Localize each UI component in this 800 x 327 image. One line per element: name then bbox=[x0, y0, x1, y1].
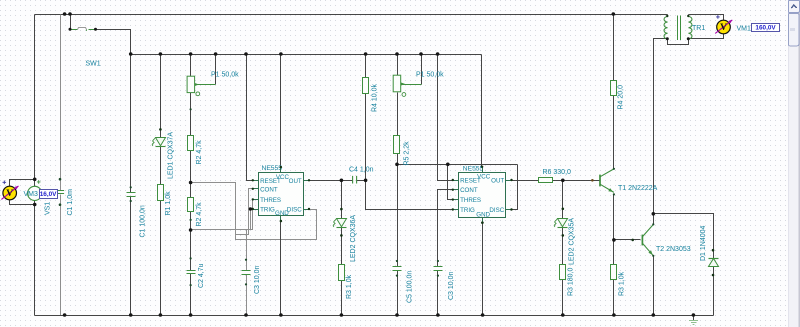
resistor R4b bbox=[611, 81, 617, 96]
svg-text:THRES: THRES bbox=[460, 197, 481, 204]
wire T2 collector node bbox=[653, 214, 655, 225]
op IC NE555 second bbox=[459, 173, 506, 218]
resistor R3a bbox=[560, 265, 566, 280]
junction TRIG1 bbox=[249, 207, 252, 210]
svg-text:R2 4,7k: R2 4,7k bbox=[196, 140, 203, 165]
wire D1 lower bbox=[713, 267, 715, 316]
wire transformer bottom U link bbox=[668, 39, 689, 45]
wire T2 emitter down bbox=[653, 256, 655, 316]
wire LED1/R1 column bbox=[160, 55, 162, 138]
wire OUT1 to C4 bbox=[310, 180, 353, 182]
svg-text:P1 50,0k: P1 50,0k bbox=[416, 72, 444, 79]
wire P1/R2 column bbox=[190, 55, 192, 77]
svg-text:LED1 CQX37A: LED1 CQX37A bbox=[168, 132, 175, 179]
svg-text:CONT: CONT bbox=[260, 186, 278, 193]
svg-text:16,0V: 16,0V bbox=[40, 191, 57, 198]
svg-text:T2 2N3053: T2 2N3053 bbox=[656, 246, 691, 253]
svg-text:P1 50,0k: P1 50,0k bbox=[211, 72, 239, 79]
wire VCC rail y54 bbox=[131, 54, 482, 56]
voltmeter VM3 bbox=[3, 186, 17, 200]
svg-text:R5 2,2k: R5 2,2k bbox=[404, 141, 411, 166]
scrollbar bbox=[788, 0, 800, 327]
wire LED2b/R3b column bbox=[341, 181, 343, 219]
svg-text:TRIG: TRIG bbox=[460, 207, 475, 214]
voltmeter VM1 bbox=[717, 20, 731, 34]
wire secondary top to VM1 bbox=[689, 15, 724, 21]
svg-text:R6 330,0: R6 330,0 bbox=[543, 169, 572, 176]
wire supply net y164.3 bbox=[398, 164, 518, 166]
svg-text:R3 1,0k: R3 1,0k bbox=[346, 274, 353, 299]
svg-text:GND: GND bbox=[476, 211, 490, 218]
svg-text:GND: GND bbox=[275, 210, 289, 217]
wire GND2 down bbox=[482, 223, 484, 316]
wire node A to DISC1 bbox=[191, 183, 317, 240]
svg-text:TR1: TR1 bbox=[692, 25, 705, 32]
svg-text:LED2 CQX36A: LED2 CQX36A bbox=[350, 215, 357, 262]
resistor R5 bbox=[394, 136, 400, 154]
wire RESET2 riser from rail bbox=[438, 55, 453, 181]
svg-text:C2 4,7u: C2 4,7u bbox=[198, 263, 205, 288]
svg-text:V: V bbox=[720, 23, 727, 33]
junction dots bbox=[63, 12, 67, 16]
wire transformer terminal stubs bbox=[667, 15, 669, 17]
capacitor C1 1,0m bbox=[57, 191, 65, 194]
wire T2 base bbox=[614, 239, 641, 241]
svg-text:OUT: OUT bbox=[289, 178, 302, 185]
potentiometer P1 50,0k bbox=[187, 76, 195, 92]
svg-text:C1 100,0n: C1 100,0n bbox=[140, 205, 147, 237]
capacitor C4 1,0n bbox=[353, 176, 357, 184]
capacitor C3a bbox=[242, 271, 251, 275]
wire R4b column (rail to T1 collector) bbox=[613, 15, 615, 81]
svg-text:V: V bbox=[6, 189, 13, 199]
wire switch riser and branch bbox=[70, 15, 72, 30]
wire VCC1 riser bbox=[280, 55, 282, 168]
svg-text:RESET: RESET bbox=[260, 178, 281, 185]
svg-text:VM3: VM3 bbox=[24, 191, 39, 198]
wire C1b column bbox=[130, 55, 132, 193]
transformer TR1 bbox=[664, 17, 667, 39]
wire P2/R5 column bbox=[397, 55, 399, 76]
wire RESET1 riser bbox=[247, 55, 253, 181]
wire CONT1 jog bbox=[236, 189, 253, 235]
resistor R2b bbox=[188, 198, 194, 212]
svg-text:R4 10,0k: R4 10,0k bbox=[372, 83, 379, 112]
wire P1 wiper riser bbox=[215, 55, 217, 85]
svg-text:THRES: THRES bbox=[260, 197, 281, 204]
svg-text:R3 180,0: R3 180,0 bbox=[568, 267, 575, 296]
potentiometer P2 (P1 50,0k) bbox=[393, 75, 401, 92]
resistor R3b bbox=[339, 265, 345, 281]
svg-text:NE555: NE555 bbox=[262, 165, 283, 172]
svg-text:160,0V: 160,0V bbox=[755, 25, 776, 32]
ground bbox=[693, 316, 695, 321]
LED LED2b bbox=[337, 219, 347, 227]
capacitor C1 100,0n bbox=[127, 193, 136, 197]
wire VS1 left column bbox=[34, 15, 36, 187]
svg-text:R3 1,0k: R3 1,0k bbox=[619, 271, 626, 296]
wire GND1 down bbox=[280, 222, 282, 316]
svg-text:OUT: OUT bbox=[491, 178, 504, 185]
pin terminal small dots 555 GND stubs bbox=[280, 220, 282, 222]
diode D1 1N4004 bbox=[709, 258, 719, 260]
wire CONT2 drop to C3b bbox=[438, 190, 453, 267]
wire transformer primary feed bbox=[654, 39, 668, 214]
transistor T1 2N2222A bbox=[599, 175, 601, 187]
capacitor C5 bbox=[393, 267, 402, 271]
wire VM1 bottom return bbox=[689, 34, 724, 39]
svg-text:T1 2N2222A: T1 2N2222A bbox=[618, 185, 658, 192]
wire LED2a/R3a column bbox=[562, 181, 564, 220]
svg-text:DISC: DISC bbox=[489, 207, 504, 214]
wire T1 emitter to T2 base node bbox=[613, 195, 615, 265]
wire VM3 stubs bbox=[10, 180, 35, 187]
svg-text:RESET: RESET bbox=[460, 178, 481, 185]
wire C1 column bbox=[60, 15, 62, 191]
svg-text:CONT: CONT bbox=[460, 187, 478, 194]
wire bottom ground rail bbox=[35, 315, 714, 317]
wire DISC2 riser bbox=[512, 165, 518, 210]
resistor R1 bbox=[158, 185, 164, 201]
svg-text:R2 4,7k: R2 4,7k bbox=[196, 202, 203, 227]
svg-text:VM1: VM1 bbox=[737, 25, 752, 32]
svg-text:C5 100,0n: C5 100,0n bbox=[407, 271, 414, 303]
resistor R4 bbox=[363, 78, 369, 94]
wire bus2 corner down to VCC2 bbox=[481, 55, 483, 168]
svg-text:LED2 CQX35A: LED2 CQX35A bbox=[569, 218, 576, 265]
resistor R2a bbox=[188, 136, 194, 151]
svg-text:NE555: NE555 bbox=[463, 166, 484, 173]
svg-text:R1 1,0k: R1 1,0k bbox=[165, 191, 172, 216]
wire R4 column + TRIG2 row bbox=[365, 55, 367, 78]
LED LED1 bbox=[156, 138, 166, 146]
capacitor C2 bbox=[187, 271, 196, 274]
resistor R3c bbox=[611, 265, 617, 280]
svg-text:C1 1,0m: C1 1,0m bbox=[67, 189, 74, 216]
svg-text:VS1: VS1 bbox=[45, 202, 52, 215]
LED LED2a bbox=[558, 219, 568, 227]
voltage source VS1 bbox=[28, 186, 42, 200]
resistor R6 bbox=[539, 178, 553, 183]
svg-text:C3 10,0n: C3 10,0n bbox=[448, 271, 455, 300]
svg-text:C3 10,0n: C3 10,0n bbox=[254, 265, 261, 294]
transistor T2 2N3053 bbox=[641, 235, 643, 246]
wire P2 wiper riser bbox=[421, 55, 423, 85]
svg-text:R4 20,0: R4 20,0 bbox=[618, 85, 625, 110]
svg-text:D1 1N4004: D1 1N4004 bbox=[700, 225, 707, 261]
switch SW1 bbox=[71, 29, 78, 31]
svg-text:TRIG: TRIG bbox=[260, 207, 275, 214]
wire C3a column bbox=[246, 230, 248, 271]
svg-text:DISC: DISC bbox=[287, 207, 302, 214]
svg-text:SW1: SW1 bbox=[86, 61, 101, 68]
svg-text:C4 1,0n: C4 1,0n bbox=[349, 167, 374, 174]
wire top rail bbox=[35, 14, 668, 16]
capacitor C3b bbox=[434, 267, 443, 271]
wire THRES2 riser bbox=[448, 165, 453, 200]
wire node B to TRIG1/THRES1 bbox=[191, 200, 253, 230]
wire OUT2 to R6 to T1 base bbox=[512, 180, 539, 182]
op IC NE555 first bbox=[259, 173, 304, 216]
